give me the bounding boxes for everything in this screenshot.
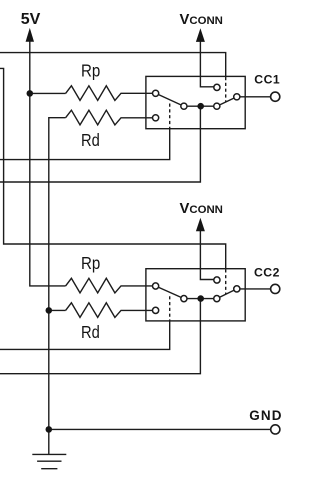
switch U2 pin Rp contact <box>153 283 159 289</box>
node J3 junction dot ground <box>46 426 53 433</box>
switch U2 pin VCONN contact <box>214 277 220 283</box>
switch U1 pin VCONN contact <box>214 84 220 90</box>
switch U1 linkage dashed left <box>169 104 171 129</box>
wire switch U2 pole out to left <box>0 299 200 374</box>
switch U2 linkage dashed left <box>169 296 171 321</box>
switch U2 linkage dashed right <box>225 269 227 294</box>
wire switch U1 linkage out to left <box>0 129 170 160</box>
switch U1 pin CC contact <box>234 94 240 100</box>
svg-text:CC1: CC1 <box>254 72 280 86</box>
resistor Rp1 <box>66 86 156 101</box>
node J2 junction dot Rd rail-Rd2 <box>46 307 53 314</box>
VCONN1 arrow <box>196 28 205 42</box>
node J1 junction dot 5V-Rp1 <box>27 90 34 97</box>
wire VCONN1 stem into switch U1 <box>200 41 217 87</box>
svg-text:Rd: Rd <box>81 130 100 150</box>
wire Rd rail from Rd1 down to ground node <box>49 118 66 430</box>
svg-text:CC2: CC2 <box>254 265 280 279</box>
wire VCONN2 stem into switch U2 <box>200 230 217 280</box>
svg-text:Rp: Rp <box>81 253 100 273</box>
switch U2 pin CC contact <box>234 286 240 292</box>
svg-text:Rp: Rp <box>81 61 100 81</box>
wire switch U1 to CC1 terminal <box>237 96 275 98</box>
svg-text:VCONN: VCONN <box>180 201 223 217</box>
switch U1 pole node dot <box>197 103 204 110</box>
switch U2 common bar <box>184 298 217 300</box>
wire switch U1 pole out to left <box>0 106 200 182</box>
svg-text:5V: 5V <box>21 11 41 28</box>
wire control net to switch U2 CC-side linkage <box>0 68 226 268</box>
switch U1 linkage dashed right <box>225 77 227 102</box>
wire control net to switch U1 CC-side linkage <box>0 53 226 77</box>
switch U2 pole node dot <box>197 295 204 302</box>
switch U1 pin Rd contact <box>153 115 159 121</box>
VCONN2 arrow <box>196 218 205 232</box>
svg-text:VCONN: VCONN <box>180 12 223 28</box>
terminal GND <box>271 425 280 434</box>
switch U2 arm CC-side <box>217 289 237 299</box>
resistor Rd1 <box>66 110 156 125</box>
switch U1 pin Rp contact <box>153 90 159 96</box>
terminal CC2 <box>271 284 280 293</box>
wire switch U2 to CC2 terminal <box>237 288 275 290</box>
switch U2 arm pivot right <box>214 296 220 302</box>
switch U1 arm Rp-side <box>156 93 184 106</box>
wire from node J2 to resistor Rd2 <box>49 309 66 311</box>
switch U1 arm pivot right <box>214 103 220 109</box>
wire ground node to GND terminal <box>49 428 275 430</box>
switch U1 arm pivot left <box>181 103 187 109</box>
switch U2 pin Rd contact <box>153 307 159 313</box>
wire from node J1 to resistor Rp1 <box>30 92 66 94</box>
switch U1 arm CC-side <box>217 97 237 106</box>
resistor Rp2 <box>66 278 156 293</box>
ground <box>32 429 66 468</box>
terminal CC1 <box>271 92 280 101</box>
switch U2 box <box>146 269 245 321</box>
wire switch U2 linkage out to left <box>0 321 170 350</box>
svg-text:Rd: Rd <box>81 322 100 342</box>
switch U2 arm Rp-side <box>156 286 184 299</box>
switch U2 arm pivot left <box>181 296 187 302</box>
switch U1 common bar <box>184 105 217 107</box>
svg-text:GND: GND <box>249 408 282 423</box>
5V supply arrow <box>26 28 34 42</box>
resistor Rd2 <box>66 303 156 318</box>
wire 5V rail down to Rp2 feed <box>30 41 66 286</box>
switch U1 box <box>146 76 245 128</box>
